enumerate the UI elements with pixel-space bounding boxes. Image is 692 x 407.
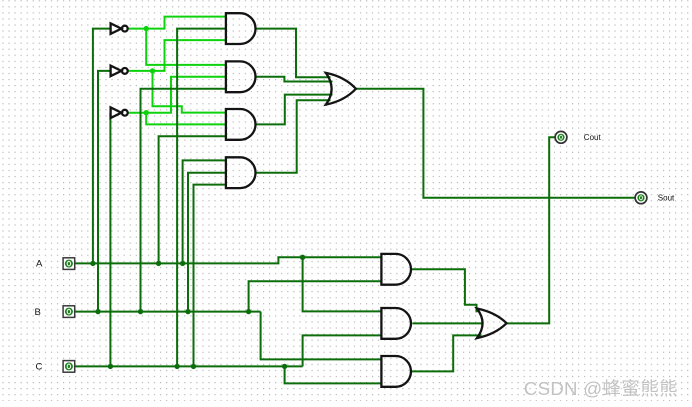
or-gate OR1 — [326, 73, 356, 105]
junction row C at AND7 tap — [282, 364, 287, 369]
wire net B to NOT2 input — [98, 71, 111, 312]
svg-text:A: A — [36, 259, 43, 270]
and-gate AND6 — [381, 308, 411, 339]
and-gate AND4 — [226, 157, 256, 188]
svg-text:C: C — [36, 362, 43, 373]
wire AND7 output to OR2 in3 — [412, 335, 482, 371]
wire net A to AND6 in1 — [303, 257, 382, 311]
wire OR1 output to Sout — [356, 89, 635, 198]
wire net C to AND7 in2 — [285, 366, 382, 383]
wire row A (pin A to AND5 in1) — [75, 257, 382, 263]
wire net C' branch (to AND3 in2) — [146, 113, 226, 125]
wire AND3 output to OR1 in3 — [255, 95, 332, 125]
svg-text:Sout: Sout — [658, 193, 675, 202]
inverter NOT3 — [111, 107, 128, 118]
junction row C at AND4 tap — [191, 364, 196, 369]
input pin C — [63, 361, 75, 373]
junction row B at AND5 tap — [246, 309, 251, 314]
wire net B to AND5 in2 — [249, 281, 382, 311]
wire net C to AND1 in2 — [177, 29, 226, 367]
wire OR2 output to Cout — [507, 137, 555, 323]
wire net C to AND6 in2 — [303, 335, 382, 366]
wire net A' branch (to AND2 in1) — [146, 29, 226, 65]
wire AND4 output to OR1 in4 — [255, 100, 330, 173]
junction net A at AND6 tap — [300, 255, 305, 260]
wire net A to AND4 in1 — [183, 160, 226, 263]
and-gate AND1 — [226, 13, 256, 44]
input pin A — [63, 258, 75, 270]
junction on NOT1 output — [144, 26, 149, 31]
wire row B (pin B rightward) — [75, 311, 261, 313]
junction row A at AND4 tap — [180, 261, 185, 266]
svg-text:B: B — [35, 307, 41, 318]
wire AND1 output to OR1 in1 — [255, 29, 330, 78]
output pin Sout — [635, 192, 647, 204]
wire AND5 output to OR2 in1 — [412, 269, 477, 312]
svg-text:Cout: Cout — [584, 133, 602, 142]
wire net B to AND4 in2 — [188, 173, 226, 312]
wire net C' (NOT3 output to AND2 in2) — [127, 77, 226, 113]
and-gate AND2 — [226, 61, 256, 92]
inverter NOT1 — [111, 23, 128, 34]
wire net B' branch (to AND3 in1) — [153, 71, 226, 113]
wire net A to NOT1 input — [93, 29, 111, 264]
wire row C (pin C rightward) — [75, 365, 303, 367]
wire net B to AND7 in1 — [261, 312, 382, 360]
junction row C at AND1 tap — [174, 364, 179, 369]
watermark CSDN — [524, 374, 678, 401]
output pin Cout — [555, 131, 567, 143]
wire net A' (NOT1 output to AND1 in1) — [127, 17, 226, 29]
junction on NOT3 output — [144, 110, 149, 115]
or-gate OR2 — [477, 309, 507, 339]
wire net A to AND3 in3 — [159, 136, 226, 263]
wire AND2 output to OR1 in2 — [255, 77, 332, 82]
input pin B — [63, 306, 75, 318]
and-gate AND7 — [381, 356, 411, 387]
wire AND6 output to OR2 in2 — [412, 322, 483, 324]
wire net B to AND2 in3 — [141, 89, 226, 312]
junction on NOT2 output — [150, 68, 155, 73]
wire net B' (NOT2 output to AND1 in3) — [127, 40, 226, 71]
inverter NOT2 — [111, 66, 128, 77]
junction row B at NOT2 tap — [95, 309, 100, 314]
junction row A at NOT1 tap — [90, 261, 95, 266]
wire net C to NOT3 input — [109, 113, 111, 367]
and-gate AND5 — [381, 254, 411, 285]
junction row C at NOT3 tap — [108, 364, 113, 369]
junction row A at AND3 tap — [156, 261, 161, 266]
junction row B at AND4 tap — [185, 309, 190, 314]
junction row B at AND2 tap — [138, 309, 143, 314]
wire net C to AND4 in3 — [194, 185, 226, 367]
and-gate AND3 — [226, 109, 256, 140]
